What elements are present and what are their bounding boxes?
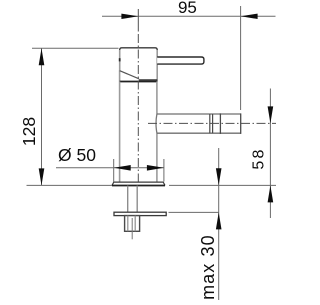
svg-text:max 30: max 30 [198, 234, 218, 300]
main centerline solid top segment [137, 9, 139, 32]
ext line d50 left [113, 159, 115, 182]
arrow 58 bottom (points up, tip at deck) [268, 185, 274, 202]
arrow d50 right (points right) [147, 165, 164, 171]
threaded shank left [127, 186, 129, 213]
nut facet line left [127, 216, 129, 232]
arrow max30 top (points down, tip at deck) [216, 168, 222, 185]
faucet head cap top edge [120, 48, 158, 52]
head left lower edge [119, 71, 121, 82]
dim line 95 horizontal [102, 15, 276, 17]
svg-text:128: 128 [19, 117, 39, 146]
spout horizontal centerline [148, 122, 276, 124]
head right edge [156, 50, 158, 82]
washer-top extension line [169, 211, 220, 213]
nut facet line right [134, 216, 136, 232]
spout-body junction arc [155, 114, 158, 133]
ext line d50 right [163, 159, 165, 182]
arrow max30 bottom (points up, tip at washer line) [216, 212, 222, 229]
main vertical centerline of body [137, 34, 139, 186]
aerator ring line [219, 113, 221, 133]
flange bottom heavy line [112, 185, 165, 187]
svg-text:58: 58 [251, 147, 268, 169]
arrow 128 bottom (points down) [39, 168, 45, 185]
arrow 128 top (points up) [39, 48, 45, 65]
spout groove line 1 [209, 114, 211, 133]
head left edge [119, 50, 121, 71]
body left edge [119, 82, 121, 183]
spout top edge [157, 113, 241, 115]
svg-text:95: 95 [178, 0, 197, 17]
dim line 128 vertical [41, 48, 43, 185]
spout end edge [240, 113, 242, 133]
lever handle [157, 57, 204, 64]
mounting washer plate [114, 212, 166, 215]
dim line diameter 50 [56, 167, 164, 169]
body right edge lower [156, 133, 158, 182]
body right edge upper [156, 82, 158, 115]
spout groove line 2 [212, 114, 214, 133]
dim line max30 vertical [218, 148, 220, 300]
arrow 95 left (points right, tip at centerline ext) [121, 14, 138, 19]
arrow 58 top (points down, tip at spout centerline) [268, 106, 274, 123]
base flange [112, 182, 165, 185]
shank centerline below nut [131, 218, 133, 239]
deck line right [169, 184, 276, 186]
dim line 58 vertical [269, 89, 271, 219]
spout bottom edge [157, 132, 241, 134]
deck line left [27, 184, 113, 186]
head parting line horizontal (right half) [139, 79, 157, 81]
threaded shank right [136, 186, 138, 213]
head diagonal parting line [120, 71, 139, 79]
ext line right of 95 dim [240, 6, 242, 110]
arrow d50 left (points left) [114, 165, 131, 171]
head left edge joint tick [119, 58, 121, 61]
body top line (thick) [120, 81, 158, 83]
svg-text:Ø 50: Ø 50 [58, 145, 96, 165]
mounting nut [125, 216, 140, 232]
ext line top of 128 dim [32, 47, 119, 49]
arrow 95 right (points left, tip at right ext line) [241, 14, 258, 19]
